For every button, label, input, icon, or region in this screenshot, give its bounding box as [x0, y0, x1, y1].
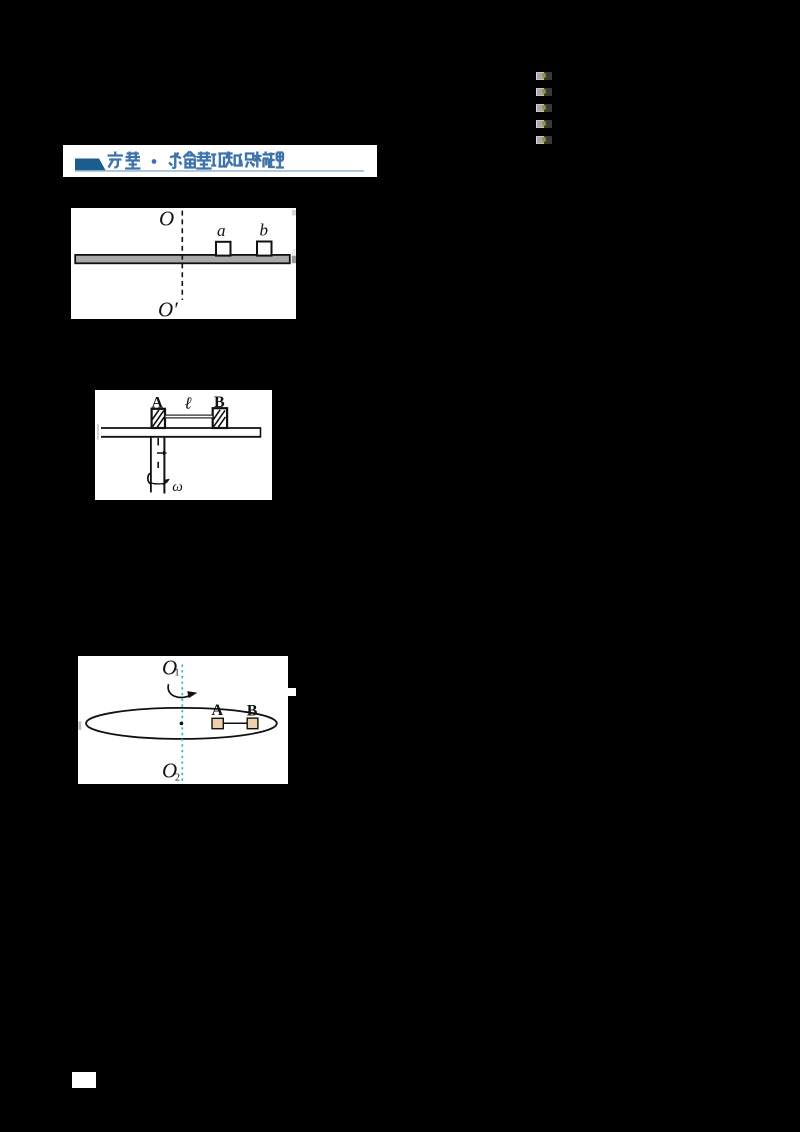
- svg-text:B: B: [214, 394, 225, 411]
- svg-text:O: O: [159, 208, 174, 231]
- svg-text:B: B: [247, 702, 258, 719]
- svg-text:A: A: [212, 702, 224, 719]
- svg-text:ω: ω: [172, 479, 183, 495]
- svg-text:2: 2: [175, 772, 180, 783]
- svg-text:ℓ: ℓ: [185, 393, 192, 412]
- svg-text:O′: O′: [158, 298, 178, 320]
- svg-text:1: 1: [175, 667, 180, 678]
- svg-text:a: a: [217, 221, 226, 240]
- svg-text:A: A: [152, 394, 164, 411]
- svg-text:b: b: [260, 221, 269, 240]
